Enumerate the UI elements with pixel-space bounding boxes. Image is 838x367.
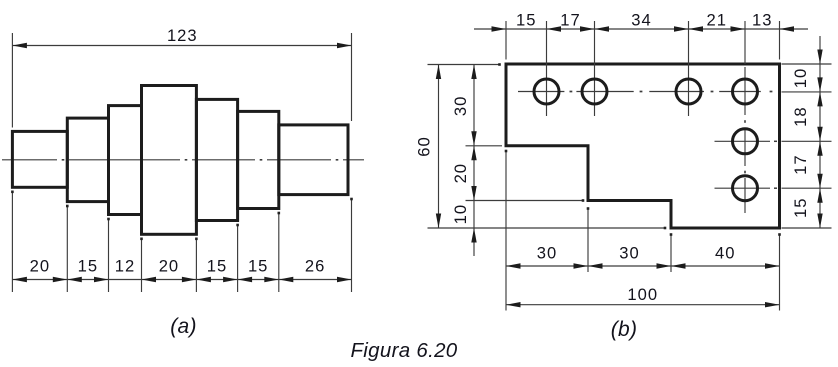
arrowhead (a) bottom at x7 [337,277,352,282]
dimension line 100 [506,304,780,306]
svg-text:10: 10 [451,204,470,224]
shaft segment 5 outline [196,99,237,220]
hole 2 circle [582,79,607,104]
arrowhead (b) top outside-left at plate corner [492,26,507,31]
arrowhead (b) left chain outside bottom [471,228,476,243]
dimension line 60 [438,65,440,229]
arrowhead (a) bottom at x3 [142,277,157,282]
svg-text:13: 13 [752,11,772,30]
dimension line (a) bottom chain [12,279,351,281]
tail right of (b) top chain [780,28,809,30]
arrowhead 60 bottom [436,214,441,229]
centerline stub hole 6 [715,187,771,189]
hole 1 circle [534,79,559,104]
arrowheads (b) left chain at step1 [471,131,476,146]
vertical centerline / extension hole 2 [594,21,596,116]
arrowhead (b) left chain at step2 [471,186,476,201]
plate outline (b) [506,64,780,228]
extension line (b) left at plate top [428,64,501,66]
dimension line (b) right chain [819,36,821,228]
extension line (a) bottom #1 [11,191,13,292]
arrowhead (b) bottom chain left [506,263,521,268]
arrowheads (b) right chain at hole row [817,77,822,92]
arrowhead 100 right [765,302,780,307]
extension line (a) bottom #8 [351,198,353,292]
shaft segment 4 outline [142,86,197,235]
svg-text:15: 15 [516,11,536,30]
extension line (a) bottom #7 [278,212,280,292]
dimension line (b) left chain [473,65,475,257]
svg-text:12: 12 [115,257,135,276]
arrowhead right of dim 123 [337,43,352,48]
arrowhead (b) top outside-right at plate corner [780,26,795,31]
svg-text:18: 18 [791,106,810,126]
extension line right of dim 123 [351,33,353,121]
vertical centerline through right hole column [744,67,746,115]
centerline stub hole 5 [715,140,771,142]
svg-text:40: 40 [715,244,735,263]
extension line (b) right #2 [782,91,832,93]
arrowheads (b) right chain at hole5 [817,127,822,142]
arrowhead (b) right chain outside top [817,50,822,65]
svg-text:20: 20 [30,257,50,276]
extension line (b) bottom at plate left [505,150,507,311]
svg-text:123: 123 [167,26,198,45]
extension line above hole 4 column [744,21,746,64]
extension line (a) bottom #2 [66,205,68,292]
extension line (a) bottom #5 [195,238,197,292]
svg-text:20: 20 [451,163,470,183]
arrowheads (a) bottom at x6 [264,277,279,282]
svg-text:21: 21 [707,11,727,30]
shaft segment 2 outline [67,118,108,202]
svg-text:30: 30 [537,244,557,263]
vertical centerline / extension hole 3 [688,21,690,116]
svg-text:26: 26 [305,257,325,276]
shaft segment 6 outline [238,111,279,208]
svg-text:15: 15 [78,257,98,276]
extension line (b) left at plate bottom [428,227,667,229]
extension line (b) left step2 [466,200,585,202]
arrowheads (a) bottom at x1 [53,277,68,282]
extension line (a) bottom #3 [108,218,110,292]
svg-text:15: 15 [791,198,810,218]
extension line (b) bottom at step2 [670,234,672,273]
extension line (b) bottom at plate right [779,234,781,311]
arrowhead (a) bottom at x2 [94,277,109,282]
arrowhead (b) bottom chain right [765,263,780,268]
svg-text:30: 30 [451,96,470,116]
hole 3 circle [676,79,701,104]
extension line (b) right #5 [782,227,832,229]
svg-text:15: 15 [248,257,268,276]
arrowheads (b) bottom chain at step1 [574,263,589,268]
arrowhead (b) left chain top [471,65,476,80]
extension line (b) right #3 [782,140,832,142]
extension line (b) bottom at step1 [587,208,589,273]
centerline of shaft (a) [2,159,57,161]
svg-text:30: 30 [619,244,639,263]
hole 6 circle [733,176,758,201]
extension line (a) bottom #6 [237,224,239,292]
arrowhead (b) right chain bottom [817,214,822,229]
svg-text:17: 17 [560,11,580,30]
svg-text:60: 60 [415,136,434,156]
extension line (b) right #4 [782,187,832,189]
extension line (b) top-right corner [779,21,781,60]
arrowhead left of dim 123 [12,43,27,48]
shaft segment 7 outline [279,125,348,195]
hole 4 circle [733,79,758,104]
dimension line (b) bottom chain [506,265,780,267]
svg-text:100: 100 [627,285,658,304]
arrowhead 100 left [506,302,521,307]
arrowheads (a) bottom at x4 [182,277,197,282]
arrowheads (a) bottom at x5 [223,277,238,282]
arrowhead (b) top at hole4 line [731,26,746,31]
arrowheads (b) bottom chain at step2 [657,263,672,268]
svg-text:17: 17 [791,154,810,174]
dimension line 123 [12,45,351,47]
svg-text:Figura 6.20: Figura 6.20 [350,339,457,362]
svg-text:(b): (b) [611,318,638,341]
arrowheads (b) top at hole3 line [674,26,689,31]
extension line left of dim 123 [11,33,13,128]
svg-text:(a): (a) [170,315,197,338]
arrowhead (a) bottom at x0 [12,277,27,282]
svg-text:15: 15 [207,257,227,276]
shaft segment 3 outline [109,106,142,215]
vertical centerline / extension hole 1 [546,21,548,116]
svg-text:34: 34 [631,11,651,30]
arrowheads (b) top at hole2 line [580,26,595,31]
extension line (b) right #1 [782,63,832,65]
hole 5 circle [733,129,758,154]
arrowhead 60 top [436,65,441,80]
dimension line (b) top chain [474,28,780,30]
extension line (b) left step1 [466,145,503,147]
horizontal centerline through top hole row [518,91,564,93]
arrowhead (b) top at hole1 line [547,26,562,31]
extension line (b) top-left corner [505,21,507,60]
svg-text:10: 10 [791,68,810,88]
extension line (a) bottom #4 [141,238,143,292]
svg-text:20: 20 [159,257,179,276]
shaft segment 1 outline [12,131,67,187]
arrowheads (b) right chain at hole6 [817,174,822,189]
